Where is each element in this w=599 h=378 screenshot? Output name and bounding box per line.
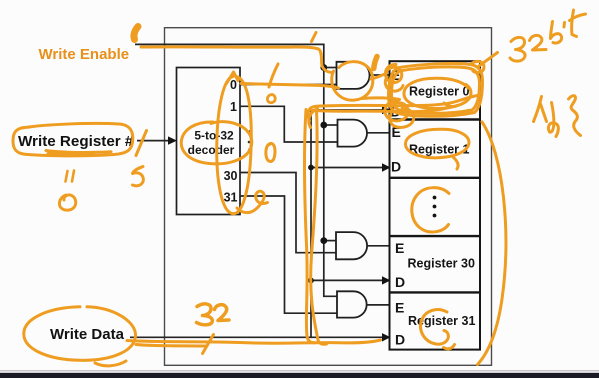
svg-text:5-to-32: 5-to-32 [194, 129, 234, 143]
svg-text:D: D [391, 159, 401, 175]
svg-text:1: 1 [230, 100, 237, 114]
svg-text:Write Data: Write Data [50, 326, 125, 343]
svg-text:Register 30: Register 30 [408, 257, 475, 271]
svg-text:D: D [395, 274, 405, 290]
svg-text:Register 31: Register 31 [408, 314, 475, 328]
svg-text:decoder: decoder [188, 143, 235, 157]
svg-text:30: 30 [224, 169, 238, 183]
svg-text:0: 0 [230, 78, 237, 92]
svg-text:D: D [395, 332, 405, 348]
svg-text:E: E [395, 240, 404, 256]
svg-text:Register 0: Register 0 [409, 85, 469, 99]
svg-text:31: 31 [224, 191, 238, 205]
svg-text:Write Register #: Write Register # [18, 133, 134, 150]
svg-text:E: E [395, 300, 404, 316]
svg-text:Write Enable: Write Enable [39, 46, 130, 63]
